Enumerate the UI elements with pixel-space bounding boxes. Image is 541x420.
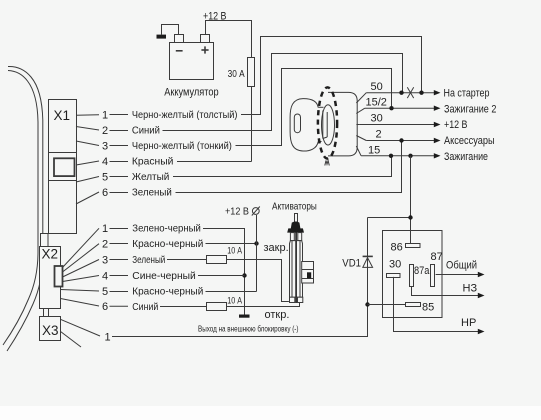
svg-text:6: 6	[102, 301, 108, 313]
svg-text:4: 4	[102, 270, 108, 282]
svg-text:откр.: откр.	[265, 309, 290, 321]
svg-text:Активаторы: Активаторы	[272, 201, 317, 213]
svg-text:X2: X2	[42, 247, 59, 262]
svg-text:4: 4	[102, 156, 108, 168]
svg-text:87: 87	[431, 251, 443, 263]
svg-text:На стартер: На стартер	[444, 88, 490, 100]
svg-text:2: 2	[102, 125, 108, 137]
svg-text:3: 3	[102, 254, 108, 266]
svg-text:Выход на внешнюю блокировку (-: Выход на внешнюю блокировку (-)	[198, 324, 299, 334]
svg-text:X3: X3	[42, 323, 59, 338]
svg-text:VD1: VD1	[342, 258, 361, 270]
svg-text:87а: 87а	[414, 265, 430, 277]
svg-text:86: 86	[391, 242, 403, 254]
svg-text:5: 5	[102, 171, 108, 183]
svg-text:1: 1	[102, 109, 108, 121]
svg-text:10 А: 10 А	[227, 246, 242, 257]
svg-text:Зажигание: Зажигание	[444, 151, 488, 163]
svg-text:1: 1	[102, 223, 108, 235]
svg-text:Красно-черный: Красно-черный	[132, 238, 203, 250]
svg-text:15/2: 15/2	[366, 97, 387, 109]
svg-text:X1: X1	[54, 108, 71, 123]
svg-text:3: 3	[102, 140, 108, 152]
svg-text:Зажигание 2: Зажигание 2	[444, 104, 496, 116]
svg-text:50: 50	[371, 81, 383, 93]
svg-text:Красный: Красный	[132, 156, 174, 168]
svg-text:Синий: Синий	[132, 125, 160, 137]
svg-text:2: 2	[102, 238, 108, 250]
svg-text:30: 30	[371, 113, 383, 125]
svg-text:10 А: 10 А	[227, 296, 242, 307]
svg-text:Аксессуары: Аксессуары	[444, 135, 495, 147]
svg-text:+12 В: +12 В	[444, 119, 468, 131]
svg-text:НР: НР	[461, 317, 476, 329]
svg-text:Красно-черный: Красно-черный	[132, 286, 203, 298]
svg-text:Синий: Синий	[132, 301, 158, 313]
svg-text:85: 85	[422, 302, 434, 314]
svg-text:30: 30	[389, 259, 401, 271]
svg-text:15: 15	[368, 144, 380, 156]
svg-text:Аккумулятор: Аккумулятор	[164, 87, 219, 99]
svg-text:+12 В: +12 В	[225, 206, 249, 218]
svg-text:30 А: 30 А	[228, 68, 245, 80]
svg-text:Сине-черный: Сине-черный	[132, 270, 196, 282]
svg-text:1: 1	[105, 332, 111, 344]
svg-text:Зеленый: Зеленый	[132, 187, 172, 199]
svg-text:Черно-желтый (толстый): Черно-желтый (толстый)	[132, 109, 238, 121]
svg-text:Общий: Общий	[446, 260, 477, 272]
svg-text:Зеленый: Зеленый	[132, 254, 165, 266]
svg-text:НЗ: НЗ	[463, 283, 478, 295]
svg-text:закр.: закр.	[264, 242, 289, 254]
svg-text:6: 6	[102, 187, 108, 199]
svg-text:Черно-желтый (тонкий): Черно-желтый (тонкий)	[132, 140, 232, 152]
svg-text:Желтый: Желтый	[132, 171, 170, 183]
svg-text:2: 2	[376, 129, 382, 141]
svg-text:5: 5	[102, 286, 108, 298]
svg-text:Зелено-черный: Зелено-черный	[132, 223, 201, 235]
